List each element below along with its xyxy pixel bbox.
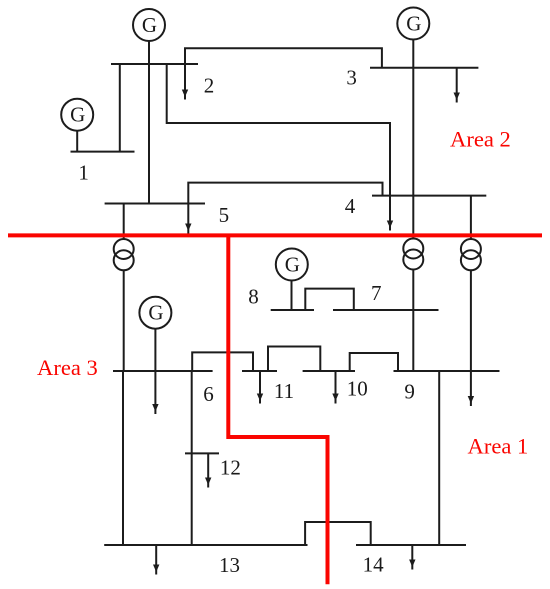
svg-text:5: 5	[219, 203, 230, 227]
svg-text:G: G	[142, 13, 157, 37]
svg-text:2: 2	[204, 73, 215, 97]
svg-text:14: 14	[363, 552, 385, 576]
svg-text:G: G	[285, 253, 300, 277]
svg-text:6: 6	[203, 382, 214, 406]
svg-text:3: 3	[346, 65, 357, 89]
svg-text:G: G	[70, 103, 85, 127]
svg-text:7: 7	[371, 281, 382, 305]
svg-text:10: 10	[347, 376, 368, 400]
svg-text:G: G	[406, 12, 421, 36]
svg-text:12: 12	[220, 456, 241, 480]
svg-text:G: G	[148, 301, 163, 325]
svg-text:4: 4	[345, 194, 356, 218]
svg-text:Area 2: Area 2	[450, 127, 511, 152]
svg-text:Area 1: Area 1	[468, 433, 529, 458]
svg-text:Area 3: Area 3	[37, 355, 98, 380]
svg-text:1: 1	[78, 160, 89, 184]
svg-text:11: 11	[274, 379, 294, 403]
svg-text:8: 8	[248, 285, 259, 309]
svg-text:13: 13	[219, 553, 240, 577]
svg-text:9: 9	[404, 380, 415, 404]
